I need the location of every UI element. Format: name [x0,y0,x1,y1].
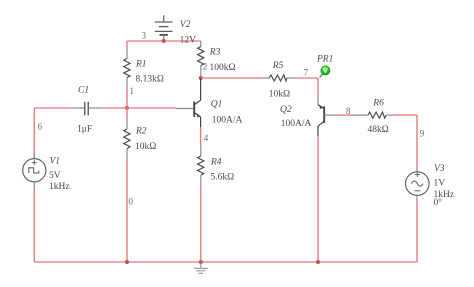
svg-text:1kHz: 1kHz [49,182,70,192]
svg-text:8.13kΩ: 8.13kΩ [136,75,164,85]
svg-text:10kΩ: 10kΩ [269,90,290,100]
svg-text:6: 6 [38,122,43,132]
resistor R3 [198,41,204,78]
resistor R1 [124,48,130,87]
wire R2 to rail [126,158,128,262]
svg-text:1μF: 1μF [77,125,92,135]
svg-text:0: 0 [129,197,134,207]
svg-text:R4: R4 [210,158,222,168]
wire V3 to rail [416,201,418,262]
wire Q2 collector to rail [317,136,319,262]
junction rail at Q2 [316,260,320,264]
svg-text:PR1: PR1 [316,55,333,65]
svg-text:12V: 12V [180,36,197,46]
svg-text:10kΩ: 10kΩ [135,142,156,152]
probe PR1 [320,66,330,78]
svg-text:4: 4 [204,133,209,143]
svg-text:9: 9 [420,129,425,139]
wire left column down to V1 [33,108,35,159]
svg-text:1V: 1V [434,178,446,188]
node 2 junction [199,76,203,80]
ground [194,262,208,273]
wire V1 bottom to rail [33,187,35,262]
wire left corner to C1 [34,107,72,109]
svg-text:R1: R1 [135,60,147,70]
svg-text:100kΩ: 100kΩ [210,63,236,73]
transistor Q1 [176,78,201,127]
svg-text:C1: C1 [78,86,89,96]
source V1 [23,153,46,187]
svg-text:R5: R5 [272,61,284,71]
svg-text:100A/A: 100A/A [212,116,243,126]
svg-text:5V: 5V [49,171,61,181]
resistor R4 [198,146,204,184]
wire bottom rail [34,261,417,263]
capacitor C1 [73,102,103,116]
svg-text:3: 3 [142,31,147,41]
resistor R2 [124,119,130,158]
svg-text:48kΩ: 48kΩ [368,125,389,135]
svg-text:V2: V2 [180,20,191,30]
wire R6 to right corner [395,114,418,116]
svg-text:Q2: Q2 [280,105,292,115]
svg-text:V1: V1 [50,157,61,167]
svg-text:2: 2 [203,62,208,72]
wire C1 to node 1 [102,107,127,109]
wire node 2 to R5 [201,77,262,79]
svg-text:R2: R2 [135,127,147,137]
svg-text:1: 1 [130,86,135,96]
svg-text:V3: V3 [434,164,445,174]
junction rail at ground [199,260,203,264]
wire node 7 down to Q2 [317,78,319,95]
transistor Q2 [318,95,336,136]
wire node 1 to Q1 base [127,107,176,109]
wire R5 to node 7 [295,77,319,79]
resistor R5 [262,75,295,81]
svg-text:R6: R6 [372,99,384,109]
wire Q2 base to R6 [336,114,352,116]
wire R1 bottom to node 1 [126,87,128,108]
wire right column down to V3 [416,115,418,166]
svg-text:100A/A: 100A/A [281,119,312,129]
wire Q1 emitter to R4 [200,127,202,146]
junction rail at R2 [125,260,129,264]
svg-text:5.6kΩ: 5.6kΩ [211,173,235,183]
svg-text:8: 8 [346,106,351,116]
svg-text:Q1: Q1 [211,100,223,110]
wire R1 top [126,41,128,48]
junction node 3 [162,39,166,43]
svg-text:R3: R3 [209,48,221,58]
source V3 [406,166,430,201]
wire top rail node 3 [127,40,201,42]
battery V2 [155,15,173,41]
wire node 1 to R2 [126,108,128,119]
wire R4 to rail [200,184,202,262]
svg-text:0°: 0° [434,197,443,208]
node 1 junction [125,106,129,110]
resistor R6 [352,112,395,118]
svg-text:7: 7 [304,68,309,78]
